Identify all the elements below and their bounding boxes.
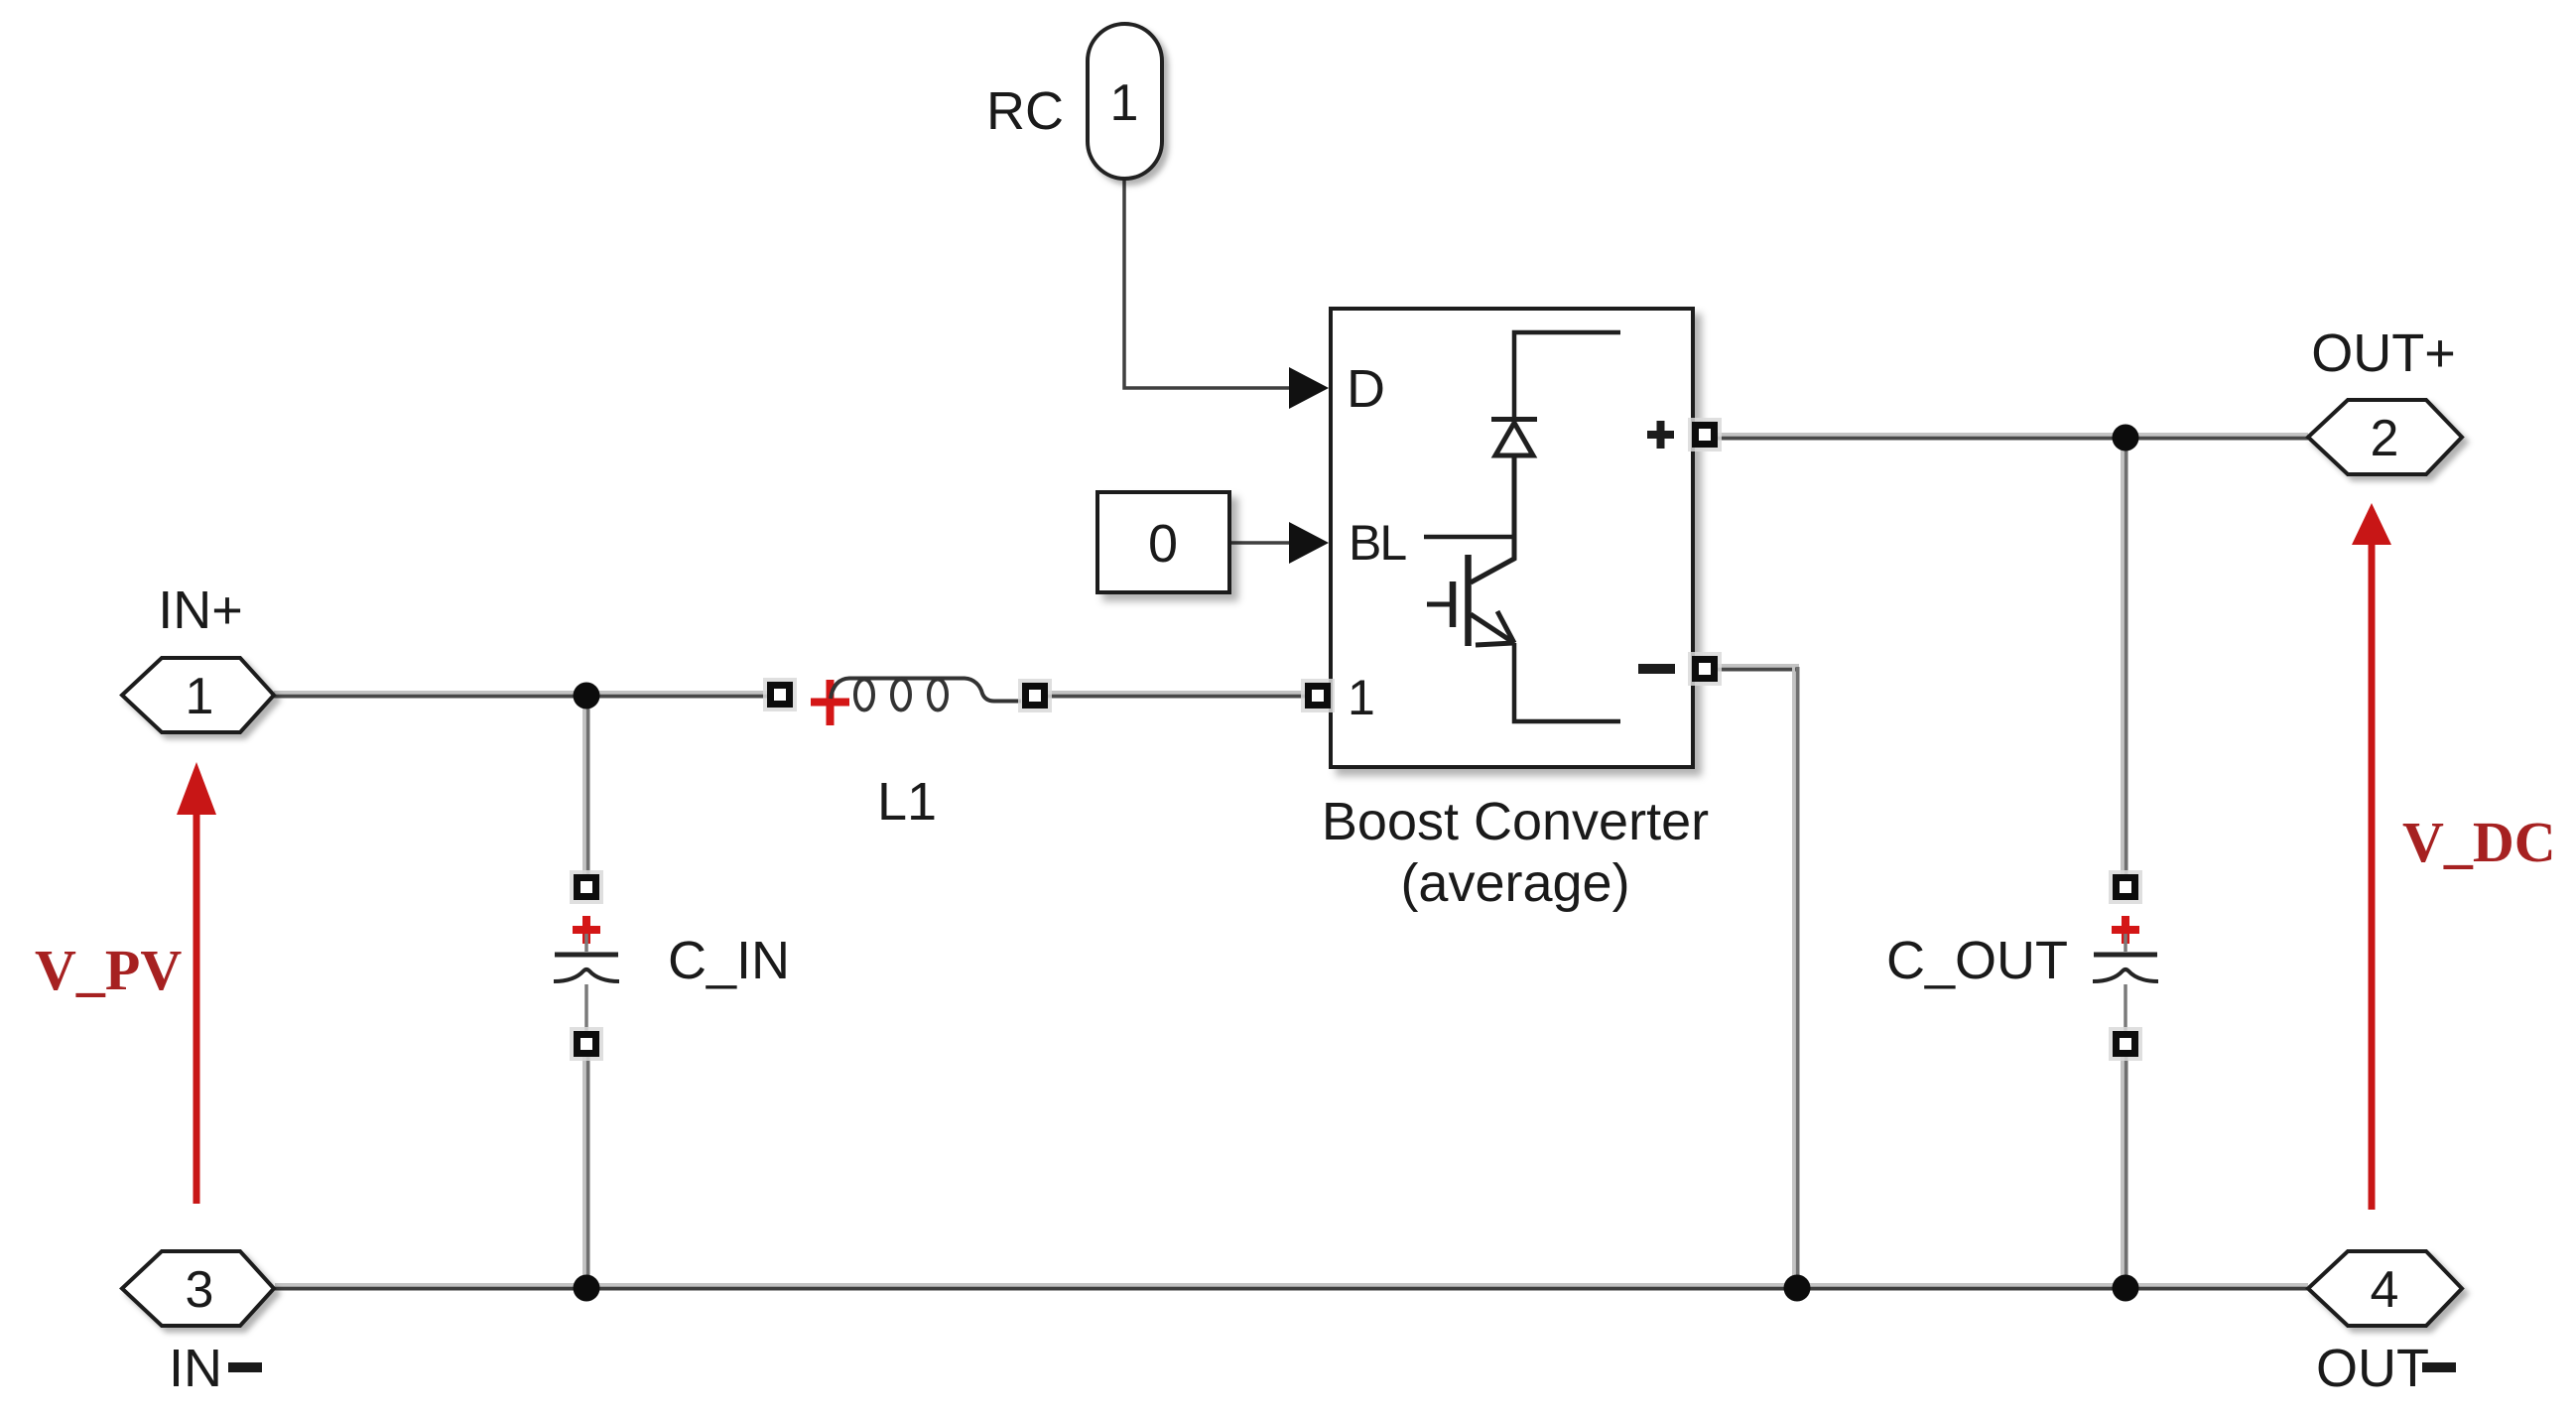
svg-text:3: 3 [186,1261,214,1319]
capacitor C_IN [554,870,619,1061]
wire IN+ to junction A to L1 [274,693,775,697]
boost internal: top rail [1424,332,1620,721]
svg-text:1: 1 [1110,74,1139,132]
C_OUT top port square [2109,870,2142,904]
C_IN red polarity + [573,916,600,944]
wire Boost + output to OUT+ [1716,435,2308,439]
signal wire RC to D input [1124,179,1329,409]
V_DC red measurement arrow [2352,503,2391,1210]
svg-text:RC: RC [986,81,1064,141]
svg-text:4: 4 [2371,1261,2399,1319]
svg-text:IN: IN [169,1339,222,1398]
wire C_OUT vertical lower [2123,1050,2126,1288]
junction dot bus/minus wire [1784,1275,1811,1302]
svg-text:(average): (average) [1400,853,1629,913]
svg-text:L1: L1 [877,772,937,832]
svg-text:OUT: OUT [2316,1339,2429,1398]
wire bottom bus IN- to OUT- [275,1285,2308,1289]
IGBT emitter with arrow [1471,614,1514,643]
IGBT Q1 main bar [1465,555,1472,646]
V_PV red measurement arrow [177,762,216,1204]
junction dot node A (IN+/C_IN) [574,683,600,709]
wire Boost - output elbow down [1716,666,1799,1289]
svg-text:C_IN: C_IN [668,931,790,990]
C_OUT red polarity + [2112,916,2139,944]
port RC (Connection Port 1) [1088,24,1162,179]
IGBT gate bar [1450,581,1457,627]
junction dot bus/C_OUT [2113,1275,2139,1302]
diode D1 cathode bar [1491,417,1537,422]
bottom rail [1514,643,1620,721]
svg-text:V_DC: V_DC [2402,810,2556,874]
junction dot bus/C_IN [574,1275,600,1302]
port square: block - output [1688,652,1722,686]
hexagon port 2 OUT+ [2308,400,2462,474]
inductor L1 [763,678,1052,725]
wire C_IN vertical lower [584,1050,588,1288]
svg-text:0: 0 [1148,514,1178,574]
L1 coil [831,679,1021,702]
C_IN plates [555,953,618,958]
C_IN top port square [570,870,603,904]
wire L1 to Boost block input 1 [1044,693,1314,697]
port square: block input 1 [1301,679,1335,712]
signal wire 0 to BL input [1229,522,1329,564]
svg-text:IN+: IN+ [158,580,243,640]
junction dot node OUT+/C_OUT [2113,425,2139,451]
capacitor C_OUT [2093,870,2158,1061]
BL gate wire internal [1424,537,1514,559]
minus sign output [1638,664,1675,674]
constant block 0 [1097,492,1229,592]
svg-text:1: 1 [186,668,214,725]
svg-text:BL: BL [1349,515,1406,571]
hexagon port 3 IN- [122,1251,274,1326]
C_IN bottom port square [570,1027,603,1061]
IGBT gate lead [1427,602,1453,607]
svg-text:C_OUT: C_OUT [1886,931,2068,990]
svg-text:OUT+: OUT+ [2311,323,2456,383]
wire C_IN vertical upper [584,696,588,881]
plus sign output [1647,421,1674,449]
L1 red polarity + [811,680,849,725]
svg-text:D: D [1347,359,1385,419]
port square: block + output [1688,418,1722,451]
L1 left port square [763,678,797,711]
C_OUT bottom port square [2109,1027,2142,1061]
diode D1 triangle [1495,423,1533,455]
svg-text:1: 1 [1348,670,1375,725]
wire C_OUT vertical upper [2123,438,2126,881]
L1 right port square [1018,679,1052,712]
diode to IGBT spine [1471,455,1514,582]
svg-text:Boost Converter: Boost Converter [1322,792,1709,851]
svg-text:V_PV: V_PV [35,938,182,1002]
hexagon port 4 OUT- [2308,1251,2462,1326]
svg-text:2: 2 [2371,410,2399,467]
hexagon port 1 IN+ [122,658,274,732]
C_OUT plates [2094,953,2157,958]
Boost Converter block U1 [1331,309,1693,767]
